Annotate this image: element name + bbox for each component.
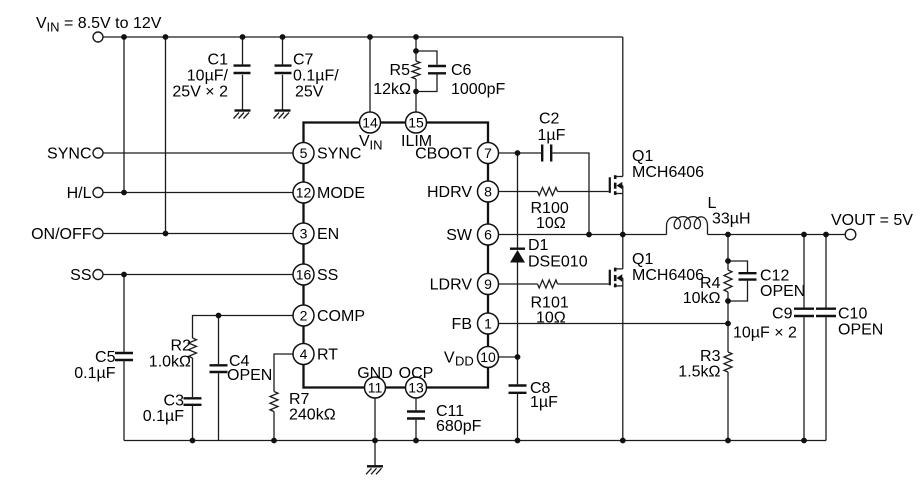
wire SYNC to pin5 — [103, 152, 293, 154]
label C12 OPEN — [760, 268, 805, 301]
wire VIN to H/L vertical — [123, 37, 125, 193]
svg-text:D1: D1 — [528, 237, 549, 254]
label C7 value — [293, 52, 339, 101]
wire C7 branch — [282, 37, 284, 110]
wire D1 anode to VDD node — [517, 263, 519, 385]
wire GND pin to rail — [374, 398, 376, 440]
wire CBOOT to D1 cathode — [517, 153, 519, 248]
svg-text:OPEN: OPEN — [227, 367, 272, 384]
svg-text:RT: RT — [317, 347, 338, 364]
pin 5 SYNC — [293, 143, 361, 164]
svg-text:COMP: COMP — [317, 308, 365, 325]
label Q1 high-side — [632, 148, 704, 181]
svg-text:14: 14 — [362, 114, 378, 130]
svg-text:10µF × 2: 10µF × 2 — [733, 325, 797, 342]
svg-text:12kΩ: 12kΩ — [373, 81, 411, 98]
svg-text:LDRV: LDRV — [430, 277, 473, 294]
label R4 value — [683, 275, 721, 307]
svg-text:Q1: Q1 — [632, 251, 653, 268]
svg-text:SW: SW — [446, 227, 473, 244]
svg-text:15: 15 — [408, 114, 424, 130]
svg-text:5: 5 — [300, 145, 308, 161]
label C5 value — [74, 349, 115, 382]
svg-text:16: 16 — [296, 266, 312, 282]
capacitor C10 — [816, 309, 836, 316]
capacitor C7 — [275, 66, 292, 73]
label C11 value — [436, 403, 482, 435]
capacitor C8 — [509, 386, 527, 393]
svg-text:C5: C5 — [95, 349, 116, 366]
node SYNC terminal — [47, 146, 103, 163]
svg-text:MCH6406: MCH6406 — [632, 267, 704, 284]
pin 9 LDRV — [430, 274, 499, 295]
resistor R2 — [189, 338, 197, 358]
wire COMP pin2 left — [193, 316, 293, 339]
svg-text:3: 3 — [300, 225, 308, 241]
label C4 OPEN — [227, 353, 272, 384]
svg-text:C9: C9 — [772, 306, 793, 323]
wire ON/OFF to pin3 — [103, 233, 293, 235]
resistor R5 — [412, 61, 420, 79]
svg-text:DSE010: DSE010 — [528, 254, 588, 271]
wire Q1 low source to ground rail — [622, 278, 624, 441]
svg-text:8: 8 — [484, 183, 492, 199]
svg-text:FB: FB — [452, 316, 472, 333]
wire R5 branch top — [415, 37, 417, 61]
transistor Q1 high-side MOSFET — [610, 175, 623, 195]
svg-text:1µF: 1µF — [538, 127, 566, 144]
svg-text:Q1: Q1 — [632, 148, 653, 165]
svg-text:DD: DD — [455, 354, 474, 369]
svg-text:C6: C6 — [451, 62, 472, 79]
wire FB to divider — [499, 323, 728, 325]
wire Q1 high-side drain drop — [622, 37, 624, 177]
svg-text:C3: C3 — [164, 393, 185, 410]
label D1 value — [528, 237, 588, 271]
svg-text:10Ω: 10Ω — [536, 215, 566, 232]
svg-text:SS: SS — [70, 267, 91, 284]
resistor R101 — [538, 280, 558, 288]
wire H/L to pin12 — [103, 192, 293, 194]
capacitor C11 — [407, 412, 425, 419]
svg-text:C10: C10 — [838, 306, 867, 323]
svg-text:CBOOT: CBOOT — [415, 146, 472, 163]
svg-text:10µF/: 10µF/ — [187, 68, 229, 85]
ground under C7 — [274, 111, 291, 119]
transistor Q1 low-side MOSFET — [610, 268, 623, 288]
svg-text:10kΩ: 10kΩ — [683, 290, 721, 307]
wire C1 branch — [242, 37, 244, 110]
ground main — [366, 466, 383, 474]
svg-text:1000pF: 1000pF — [451, 81, 505, 98]
label R3 value — [678, 348, 720, 381]
wire C9 branch — [803, 235, 805, 441]
svg-text:V: V — [444, 350, 455, 367]
wire OCP to C11 — [415, 398, 417, 410]
svg-text:4: 4 — [300, 346, 308, 362]
pin 10 VDD — [444, 347, 499, 369]
label R7 value — [289, 391, 336, 424]
pin 4 RT — [293, 344, 338, 365]
pin 12 MODE — [293, 182, 365, 203]
pin 1 FB — [452, 313, 499, 334]
svg-text:ON/OFF: ON/OFF — [31, 226, 92, 243]
pin 7 CBOOT — [415, 143, 498, 164]
svg-text:OPEN: OPEN — [760, 283, 805, 300]
diode D1 — [510, 249, 525, 263]
svg-text:C2: C2 — [539, 111, 560, 128]
label R100 value — [531, 200, 569, 232]
pin 2 COMP — [293, 305, 365, 326]
wire R4 to FB node — [727, 292, 729, 324]
node VIN terminal — [93, 32, 103, 42]
label Q1 low-side — [632, 251, 704, 284]
wire C3 to ground rail — [192, 406, 194, 441]
svg-text:H/L: H/L — [67, 185, 92, 202]
wire top VIN rail — [103, 36, 623, 38]
resistor R7 — [270, 392, 278, 412]
svg-text:25V × 2: 25V × 2 — [172, 84, 228, 101]
svg-text:IN: IN — [370, 138, 383, 153]
svg-text:HDRV: HDRV — [427, 184, 472, 201]
wire VOUT node to R4 — [727, 235, 729, 271]
svg-text:12: 12 — [296, 184, 312, 200]
svg-text:7: 7 — [484, 145, 492, 161]
wire bottom ground rail — [124, 440, 826, 442]
wire C4 branch — [218, 316, 220, 441]
svg-text:EN: EN — [317, 226, 339, 243]
svg-text:L: L — [708, 195, 717, 212]
svg-text:SS: SS — [317, 267, 338, 284]
svg-text:C7: C7 — [293, 52, 314, 69]
capacitor C5 — [115, 353, 133, 360]
wire Q1 source to SW — [622, 186, 624, 235]
wire pin14 VIN drop — [369, 37, 371, 112]
capacitor C4 — [210, 365, 228, 372]
pin 8 HDRV — [427, 181, 499, 202]
svg-text:OPEN: OPEN — [838, 322, 883, 339]
svg-text:OCP: OCP — [399, 365, 434, 382]
node VOUT terminal — [831, 212, 913, 240]
label C2 value — [538, 111, 566, 145]
svg-text:0.1µF: 0.1µF — [143, 408, 184, 425]
wire CBOOT to C2 — [499, 152, 541, 154]
wire Q1 low drain to SW — [622, 235, 624, 269]
svg-text:240kΩ: 240kΩ — [289, 407, 336, 424]
capacitor C3 — [184, 398, 202, 405]
op-amp U1 IC body — [304, 123, 489, 388]
svg-text:V: V — [36, 15, 47, 32]
inductor L — [667, 217, 708, 235]
label C1 value — [172, 52, 228, 101]
label R2 value — [149, 338, 191, 371]
svg-text:0.1µF: 0.1µF — [74, 365, 115, 382]
svg-text:= 8.5V to 12V: = 8.5V to 12V — [64, 15, 162, 32]
svg-text:6: 6 — [484, 226, 492, 242]
pin 3 EN — [293, 223, 339, 244]
svg-text:33µH: 33µH — [712, 211, 751, 228]
resistor R4 — [724, 270, 732, 292]
wire C11 to rail — [415, 420, 417, 441]
svg-text:R7: R7 — [289, 391, 310, 408]
svg-text:0.1µF/: 0.1µF/ — [293, 68, 339, 85]
pin 13 OCP — [399, 365, 434, 398]
resistor R3 — [724, 324, 732, 441]
svg-text:10: 10 — [480, 349, 496, 365]
wire R7 to ground rail — [273, 412, 275, 441]
wire rail to ground symbol — [374, 441, 376, 466]
wire VIN to ON/OFF vertical — [165, 37, 167, 234]
capacitor C2 — [542, 145, 551, 162]
wire C10 branch — [825, 235, 827, 441]
capacitor C6 — [428, 66, 446, 73]
svg-text:1.0kΩ: 1.0kΩ — [149, 354, 191, 371]
svg-text:MCH6406: MCH6406 — [632, 164, 704, 181]
svg-text:1.5kΩ: 1.5kΩ — [678, 364, 720, 381]
wire SW to VOUT — [708, 234, 846, 236]
wire SS to C5 vertical — [123, 275, 125, 352]
wire C8 to ground rail — [517, 394, 519, 441]
svg-text:MODE: MODE — [317, 185, 365, 202]
pin 14 VIN — [359, 112, 383, 153]
wire R101 to Q1 low gate — [558, 283, 609, 285]
svg-text:R5: R5 — [390, 62, 411, 79]
wire C2 to SW node — [552, 153, 589, 235]
label C9 — [772, 306, 793, 323]
label R101 value — [531, 295, 569, 327]
svg-text:680pF: 680pF — [436, 418, 482, 435]
svg-text:GND: GND — [357, 365, 393, 382]
label C3 value — [143, 393, 184, 426]
capacitor C12 — [739, 273, 757, 279]
label C10 OPEN — [838, 306, 883, 339]
capacitor C1 — [234, 66, 251, 73]
label C6 value — [451, 62, 505, 98]
resistor R100 — [538, 188, 558, 196]
wire LDRV to R101 — [499, 283, 538, 285]
label L value — [708, 195, 751, 228]
svg-text:9: 9 — [484, 276, 492, 292]
pin 16 SS — [293, 264, 338, 285]
wire HDRV to R100 — [499, 191, 538, 193]
svg-text:R3: R3 — [700, 348, 721, 365]
wire C5 to ground rail — [123, 361, 125, 440]
wire C6 parallel branch — [416, 51, 437, 92]
node SS terminal — [70, 267, 103, 284]
wire C12 parallel branch — [728, 261, 748, 301]
capacitor C9 — [794, 309, 814, 316]
wire SS to pin16 — [103, 274, 293, 276]
svg-text:VOUT = 5V: VOUT = 5V — [831, 212, 913, 229]
svg-text:SYNC: SYNC — [317, 146, 361, 163]
node ON/OFF terminal — [31, 226, 103, 243]
wire R5 bottom to pin15 — [415, 79, 417, 112]
svg-text:1: 1 — [484, 315, 492, 331]
svg-text:1µF: 1µF — [530, 394, 558, 411]
svg-text:25V: 25V — [295, 84, 324, 101]
svg-text:R2: R2 — [171, 338, 192, 355]
wire VDD pin to node — [499, 356, 518, 358]
label C9 multiplier — [733, 325, 797, 342]
wire RT pin4 to R7 — [274, 354, 293, 392]
label R5 value — [373, 62, 411, 98]
ground under C1 — [234, 111, 251, 119]
wire SW pin to inductor — [499, 234, 667, 236]
label C8 value — [530, 380, 558, 411]
svg-text:SYNC: SYNC — [47, 146, 91, 163]
svg-text:2: 2 — [300, 307, 308, 323]
pin 6 SW — [446, 224, 498, 245]
label VIN = 8.5V to 12V — [36, 15, 162, 35]
svg-text:IN: IN — [47, 20, 60, 35]
node H/L terminal — [67, 185, 103, 202]
pin 15 ILIM — [401, 112, 432, 150]
pin 11 GND — [357, 365, 393, 398]
wire R2 to C3 — [192, 358, 194, 397]
wire R100 to Q1 gate — [558, 191, 609, 193]
svg-text:C1: C1 — [208, 52, 229, 69]
svg-text:C12: C12 — [760, 268, 789, 285]
